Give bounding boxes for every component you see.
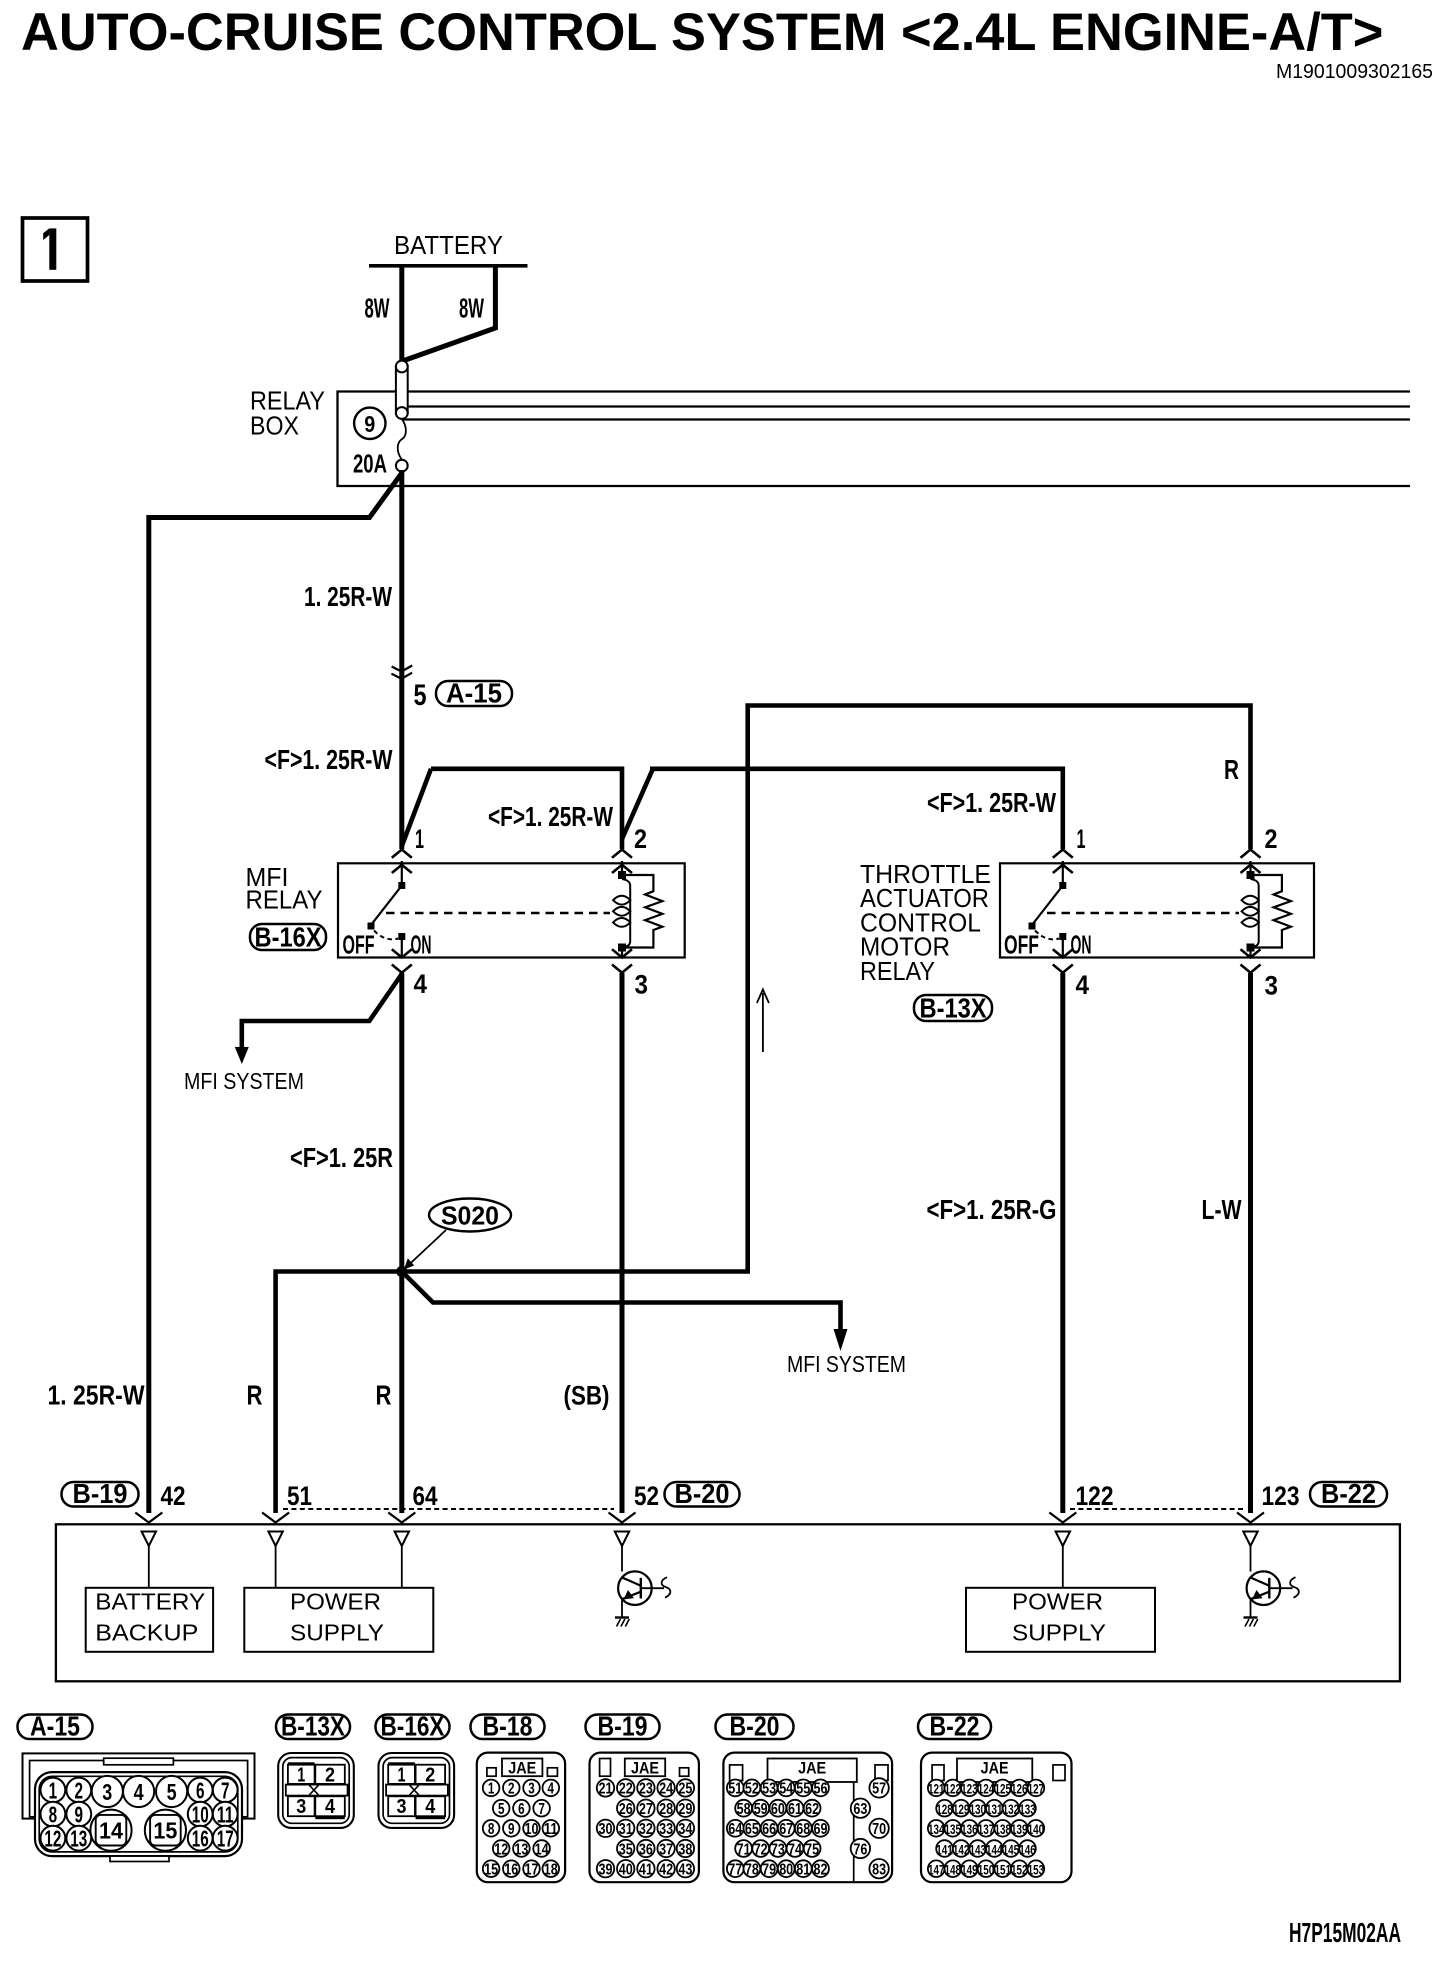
svg-text:42: 42	[659, 1862, 673, 1879]
svg-text:38: 38	[678, 1841, 692, 1858]
connector diagram B-20	[723, 1753, 892, 1883]
svg-text:37: 37	[659, 1841, 673, 1858]
wire 8W left from battery	[399, 266, 404, 361]
svg-text:69: 69	[814, 1821, 828, 1838]
svg-text:BACKUP: BACKUP	[95, 1620, 198, 1646]
wire from MFI pin 1 up-right to horizontal feed	[402, 769, 431, 846]
svg-text:ON: ON	[411, 930, 432, 960]
svg-text:153: 153	[1028, 1862, 1045, 1878]
svg-text:11: 11	[217, 1802, 234, 1828]
svg-text:36: 36	[639, 1841, 653, 1858]
svg-text:24: 24	[659, 1781, 673, 1798]
svg-text:(SB): (SB)	[564, 1381, 610, 1411]
svg-text:<F>1. 25R: <F>1. 25R	[290, 1142, 393, 1173]
svg-text:<F>1. 25R-G: <F>1. 25R-G	[927, 1194, 1057, 1225]
svg-text:151: 151	[994, 1862, 1011, 1878]
svg-text:15: 15	[153, 1818, 177, 1844]
svg-text:<F>1. 25R-W: <F>1. 25R-W	[927, 787, 1056, 818]
svg-text:2: 2	[425, 1765, 435, 1787]
svg-text:68: 68	[796, 1821, 810, 1838]
wire branch to B-19 pin 42 (left drop)	[149, 472, 403, 1513]
svg-text:M1901009302165: M1901009302165	[1276, 61, 1433, 83]
svg-text:71: 71	[737, 1841, 751, 1858]
connector diagram B-22	[921, 1753, 1072, 1883]
svg-text:52: 52	[634, 1481, 659, 1511]
svg-text:121: 121	[928, 1781, 945, 1797]
svg-text:138: 138	[994, 1821, 1011, 1837]
MFI relay pin 2 connector chevrons	[612, 850, 632, 858]
continuation up arrow	[762, 993, 764, 1052]
svg-text:2: 2	[1265, 824, 1278, 854]
svg-text:R: R	[1224, 754, 1239, 785]
svg-text:POWER: POWER	[1012, 1588, 1103, 1614]
fuse number circle 9	[354, 408, 385, 439]
svg-text:136: 136	[961, 1821, 978, 1837]
svg-text:134: 134	[928, 1821, 945, 1837]
wire end chevrons at ECU pins	[135, 1513, 162, 1523]
wire throttle relay pin 3 down to pin 123	[1248, 973, 1253, 1513]
svg-text:12: 12	[44, 1826, 61, 1852]
svg-text:78: 78	[745, 1862, 759, 1879]
MFI relay switch	[368, 861, 406, 958]
svg-text:123: 123	[961, 1781, 978, 1797]
svg-text:51: 51	[287, 1481, 312, 1511]
junction dot S020	[396, 1266, 407, 1277]
svg-text:123: 123	[1262, 1481, 1300, 1511]
svg-text:126: 126	[1011, 1781, 1028, 1797]
wire throttle relay pin 4 down to pin 122	[1060, 973, 1065, 1513]
svg-text:81: 81	[796, 1862, 810, 1879]
svg-text:B-18: B-18	[483, 1711, 533, 1742]
svg-text:135: 135	[945, 1821, 962, 1837]
svg-text:148: 148	[945, 1862, 962, 1878]
connector diagram B-19	[590, 1753, 699, 1883]
svg-text:3: 3	[528, 1781, 535, 1798]
svg-text:26: 26	[619, 1801, 633, 1818]
svg-text:141: 141	[936, 1841, 953, 1857]
svg-text:27: 27	[639, 1801, 653, 1818]
svg-text:29: 29	[678, 1801, 692, 1818]
svg-text:137: 137	[978, 1821, 995, 1837]
svg-text:10: 10	[192, 1802, 209, 1828]
svg-text:B-13X: B-13X	[920, 993, 987, 1024]
svg-text:5: 5	[498, 1801, 505, 1818]
svg-text:140: 140	[1028, 1821, 1045, 1837]
BATTERY BACKUP block	[86, 1588, 213, 1652]
svg-text:12: 12	[494, 1841, 508, 1858]
svg-text:2: 2	[75, 1777, 84, 1803]
svg-text:B-19: B-19	[598, 1711, 648, 1742]
relay box bus line lower	[402, 418, 1410, 420]
connector diagram B-16X	[379, 1753, 455, 1828]
svg-text:A-15: A-15	[446, 678, 502, 709]
wire MFI relay pin 4 down to node S020 and pin 64	[399, 973, 404, 1513]
svg-text:MFI SYSTEM: MFI SYSTEM	[787, 1351, 906, 1377]
throttle relay actuation dashed link	[1047, 912, 1239, 914]
svg-text:80: 80	[779, 1862, 793, 1879]
svg-text:77: 77	[728, 1862, 742, 1879]
svg-text:57: 57	[872, 1781, 886, 1798]
svg-text:4: 4	[414, 969, 428, 999]
svg-text:16: 16	[192, 1826, 209, 1852]
wire branch to MFI SYSTEM left arrow	[242, 974, 402, 1049]
svg-text:128: 128	[936, 1801, 953, 1817]
MFI relay pin 3 connector chevrons	[612, 949, 632, 957]
connector bubble B-13X	[914, 995, 992, 1021]
connector bubble B-13X bottom	[276, 1715, 350, 1740]
svg-text:43: 43	[678, 1862, 692, 1879]
connector bubble A-15 bottom	[18, 1715, 93, 1740]
svg-text:AUTO-CRUISE CONTROL SYSTEM <2.: AUTO-CRUISE CONTROL SYSTEM <2.4L ENGINE-…	[21, 4, 1383, 62]
svg-text:4: 4	[548, 1781, 555, 1798]
throttle relay pin 2 connector chevrons	[1241, 850, 1261, 858]
svg-text:124: 124	[978, 1781, 995, 1797]
svg-text:1. 25R-W: 1. 25R-W	[304, 581, 392, 612]
svg-text:62: 62	[805, 1801, 819, 1818]
svg-text:3: 3	[296, 1796, 306, 1818]
svg-text:142: 142	[953, 1841, 970, 1857]
connector diagram B-18	[477, 1753, 565, 1883]
svg-text:23: 23	[639, 1781, 653, 1798]
svg-text:B-22: B-22	[930, 1711, 980, 1742]
svg-text:3: 3	[102, 1779, 112, 1805]
svg-text:66: 66	[762, 1821, 776, 1838]
svg-text:6: 6	[518, 1801, 525, 1818]
svg-text:67: 67	[779, 1821, 793, 1838]
svg-text:JAE: JAE	[981, 1759, 1009, 1778]
connector bubble B-19 inline	[62, 1482, 139, 1507]
horizontal feed wire to MFI pin 2	[431, 767, 622, 850]
svg-text:139: 139	[1011, 1821, 1028, 1837]
connector diagram A-15	[23, 1753, 255, 1861]
svg-text:JAE: JAE	[798, 1759, 826, 1778]
svg-text:83: 83	[872, 1862, 886, 1879]
svg-text:70: 70	[872, 1821, 886, 1838]
fuse 9 20A holder and element	[396, 361, 408, 472]
connector bubble B-16X bottom	[376, 1715, 450, 1740]
svg-text:8W: 8W	[365, 293, 390, 324]
svg-text:<F>1. 25R-W: <F>1. 25R-W	[488, 801, 613, 832]
svg-text:7: 7	[538, 1801, 545, 1818]
connector bubble B-20 inline	[665, 1482, 740, 1507]
output transistor at pin 123	[1247, 1571, 1281, 1605]
svg-text:122: 122	[1076, 1481, 1114, 1511]
svg-text:61: 61	[788, 1801, 802, 1818]
svg-text:B-19: B-19	[73, 1478, 128, 1509]
svg-text:58: 58	[737, 1801, 751, 1818]
svg-text:28: 28	[659, 1801, 673, 1818]
svg-text:64: 64	[413, 1481, 438, 1511]
wire from S020 left to pin 51	[276, 1272, 402, 1514]
svg-text:39: 39	[599, 1862, 613, 1879]
svg-text:13: 13	[70, 1826, 87, 1852]
svg-text:65: 65	[745, 1821, 759, 1838]
svg-text:149: 149	[961, 1862, 978, 1878]
svg-text:56: 56	[814, 1781, 828, 1798]
svg-text:147: 147	[928, 1862, 945, 1878]
svg-text:2: 2	[634, 824, 647, 854]
svg-text:1. 25R-W: 1. 25R-W	[48, 1380, 145, 1411]
svg-text:32: 32	[639, 1821, 653, 1838]
svg-text:30: 30	[599, 1821, 613, 1838]
svg-text:73: 73	[771, 1841, 785, 1858]
svg-text:76: 76	[853, 1841, 867, 1858]
svg-text:42: 42	[161, 1481, 186, 1511]
svg-text:60: 60	[771, 1801, 785, 1818]
svg-text:RELAY: RELAY	[246, 885, 323, 915]
svg-text:11: 11	[544, 1821, 558, 1838]
svg-text:14: 14	[99, 1818, 123, 1844]
svg-text:21: 21	[599, 1781, 613, 1798]
svg-text:15: 15	[484, 1862, 498, 1879]
svg-text:131: 131	[986, 1801, 1003, 1817]
svg-text:59: 59	[754, 1801, 768, 1818]
svg-text:145: 145	[1003, 1841, 1020, 1857]
connector bubble B-19 bottom	[586, 1715, 660, 1740]
svg-text:B-16X: B-16X	[255, 922, 322, 953]
internal leads to function blocks	[148, 1546, 150, 1588]
svg-text:SUPPLY: SUPPLY	[1012, 1620, 1106, 1646]
svg-text:B-16X: B-16X	[381, 1711, 445, 1742]
MFI relay coil	[613, 861, 630, 958]
svg-text:B-22: B-22	[1321, 1478, 1376, 1509]
svg-text:5: 5	[414, 679, 427, 712]
svg-text:8W: 8W	[459, 293, 484, 324]
connector bubble B-20 bottom	[716, 1715, 794, 1740]
svg-text:A-15: A-15	[30, 1711, 80, 1742]
svg-text:132: 132	[1003, 1801, 1020, 1817]
svg-text:7: 7	[221, 1777, 230, 1803]
MFI relay actuation dashed link	[386, 912, 610, 914]
svg-text:MFI SYSTEM: MFI SYSTEM	[184, 1068, 304, 1094]
svg-text:130: 130	[969, 1801, 986, 1817]
svg-text:1: 1	[297, 1765, 305, 1787]
svg-text:9: 9	[508, 1821, 515, 1838]
svg-text:79: 79	[762, 1862, 776, 1879]
svg-text:146: 146	[1019, 1841, 1036, 1857]
ECU pin terminals (open triangles)	[142, 1532, 156, 1547]
svg-text:BATTERY: BATTERY	[95, 1588, 205, 1614]
svg-text:4: 4	[134, 1779, 144, 1805]
svg-text:10: 10	[525, 1821, 539, 1838]
svg-text:OFF: OFF	[343, 930, 375, 960]
svg-text:L-W: L-W	[1202, 1194, 1242, 1225]
svg-text:17: 17	[217, 1826, 234, 1852]
svg-text:133: 133	[1019, 1801, 1036, 1817]
svg-text:3: 3	[635, 970, 649, 1000]
svg-text:POWER: POWER	[290, 1588, 381, 1614]
svg-text:S020: S020	[441, 1201, 499, 1231]
svg-text:75: 75	[805, 1841, 819, 1858]
svg-text:R: R	[376, 1380, 392, 1411]
MFI relay pin 1 connector chevrons	[392, 850, 412, 858]
throttle relay box	[1000, 863, 1314, 957]
battery bus bar	[369, 264, 528, 268]
svg-text:72: 72	[754, 1841, 768, 1858]
svg-text:1: 1	[398, 1765, 406, 1787]
svg-text:33: 33	[659, 1821, 673, 1838]
wire MFI relay pin 3 down to pin 52	[620, 973, 625, 1513]
connector bubble B-18 bottom	[471, 1715, 545, 1740]
svg-text:9: 9	[75, 1802, 84, 1828]
svg-text:150: 150	[978, 1862, 995, 1878]
svg-text:2: 2	[508, 1781, 515, 1798]
svg-text:82: 82	[814, 1862, 828, 1879]
svg-text:B-20: B-20	[675, 1478, 730, 1509]
svg-text:55: 55	[796, 1781, 810, 1798]
wire 1.25R-W main vertical from fuse to MFI relay pin 1	[399, 470, 404, 849]
throttle relay coil suppression resistor	[1255, 875, 1291, 948]
svg-text:143: 143	[969, 1841, 986, 1857]
svg-text:SUPPLY: SUPPLY	[290, 1620, 384, 1646]
relay box bus line upper	[402, 405, 1410, 407]
svg-text:74: 74	[788, 1841, 802, 1858]
MFI relay box	[338, 863, 685, 957]
throttle relay coil	[1242, 861, 1259, 958]
connector bubble B-22 inline	[1310, 1482, 1387, 1507]
S020 pointer arrow	[407, 1230, 446, 1267]
throttle relay switch	[1029, 861, 1067, 958]
connector bubble B-16X	[250, 924, 326, 950]
svg-text:9: 9	[364, 411, 375, 437]
svg-text:4: 4	[1076, 970, 1090, 1000]
svg-text:18: 18	[544, 1862, 558, 1879]
svg-text:31: 31	[619, 1821, 633, 1838]
svg-text:54: 54	[779, 1781, 793, 1798]
svg-text:3: 3	[1265, 971, 1279, 1001]
figure number box 1	[23, 218, 88, 281]
harness pass-through chevrons on main wire	[392, 666, 413, 672]
throttle relay pin 1 connector chevrons	[1053, 850, 1073, 858]
svg-text:ON: ON	[1071, 930, 1092, 960]
MFI relay coil suppression resistor	[626, 875, 662, 948]
svg-text:129: 129	[953, 1801, 970, 1817]
svg-text:BATTERY: BATTERY	[394, 230, 503, 260]
output transistor at pin 52	[618, 1571, 652, 1605]
ECU box	[56, 1524, 1400, 1681]
connector bubble B-22 bottom	[918, 1715, 991, 1740]
dashed connector grouping line B-22	[1070, 1508, 1243, 1510]
svg-text:122: 122	[945, 1781, 962, 1797]
svg-text:63: 63	[853, 1801, 867, 1818]
svg-text:152: 152	[1011, 1862, 1028, 1878]
svg-text:1: 1	[415, 824, 424, 854]
svg-text:127: 127	[1028, 1781, 1045, 1797]
svg-text:<F>1. 25R-W: <F>1. 25R-W	[265, 744, 393, 775]
svg-text:25: 25	[678, 1781, 692, 1798]
splice S020 oval	[429, 1199, 511, 1232]
svg-text:125: 125	[994, 1781, 1011, 1797]
svg-text:1: 1	[49, 1777, 58, 1803]
MFI relay pin 4 connector chevrons	[392, 949, 412, 957]
throttle relay pin 4 connector chevrons	[1053, 949, 1073, 957]
svg-text:20A: 20A	[353, 449, 387, 479]
svg-text:16: 16	[504, 1862, 518, 1879]
wire from S020 to MFI SYSTEM right arrow	[402, 1272, 841, 1332]
svg-text:8: 8	[488, 1821, 495, 1838]
svg-text:40: 40	[619, 1862, 633, 1879]
svg-text:JAE: JAE	[508, 1759, 536, 1778]
svg-text:22: 22	[619, 1781, 633, 1798]
svg-text:51: 51	[728, 1781, 742, 1798]
svg-text:5: 5	[167, 1779, 177, 1805]
svg-text:41: 41	[639, 1862, 653, 1879]
connector diagram B-13X	[278, 1753, 354, 1828]
svg-text:6: 6	[196, 1777, 205, 1803]
svg-text:35: 35	[619, 1841, 633, 1858]
wire from S020 node up and over to throttle relay pin 2	[402, 706, 1251, 1272]
svg-text:144: 144	[986, 1841, 1003, 1857]
svg-text:8: 8	[49, 1802, 58, 1828]
svg-text:BOX: BOX	[250, 411, 299, 441]
svg-text:R: R	[247, 1380, 263, 1411]
feed wire branch diagonal to throttle relay pin 1 horizontal	[622, 769, 1063, 849]
svg-text:53: 53	[762, 1781, 776, 1798]
svg-text:13: 13	[514, 1841, 528, 1858]
svg-text:OFF: OFF	[1004, 930, 1039, 960]
POWER SUPPLY block left	[244, 1588, 433, 1652]
svg-text:3: 3	[397, 1796, 407, 1818]
svg-text:14: 14	[535, 1841, 549, 1858]
relay box outline	[338, 392, 1411, 487]
wire 8W right from battery	[404, 266, 495, 361]
connector bubble A-15 inline	[436, 681, 512, 706]
svg-text:2: 2	[325, 1765, 335, 1787]
dashed connector grouping line B-20	[283, 1508, 614, 1510]
svg-text:B-13X: B-13X	[281, 1711, 345, 1742]
svg-text:JAE: JAE	[631, 1759, 659, 1778]
svg-text:17: 17	[525, 1862, 539, 1879]
throttle relay pin 3 connector chevrons	[1241, 949, 1261, 957]
svg-text:1: 1	[1077, 824, 1086, 854]
svg-text:52: 52	[745, 1781, 759, 1798]
svg-text:1: 1	[488, 1781, 495, 1798]
svg-text:64: 64	[728, 1821, 742, 1838]
svg-text:B-20: B-20	[730, 1711, 780, 1742]
svg-text:RELAY: RELAY	[860, 956, 935, 986]
svg-text:H7P15M02AA: H7P15M02AA	[1289, 1917, 1401, 1948]
svg-text:4: 4	[425, 1796, 436, 1818]
POWER SUPPLY block right	[966, 1588, 1155, 1652]
svg-text:4: 4	[325, 1796, 336, 1818]
svg-text:34: 34	[678, 1821, 692, 1838]
